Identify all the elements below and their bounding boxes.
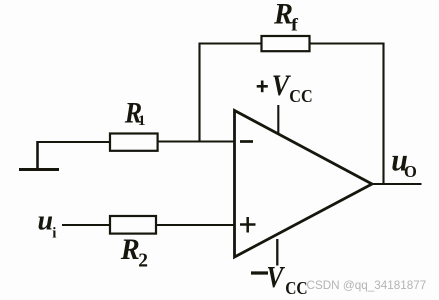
svg-text:O: O [404, 162, 417, 181]
label -Vcc [251, 261, 308, 299]
svg-text:R: R [273, 0, 293, 31]
wire +Vcc stub [277, 105, 279, 135]
wire -Vcc stub [276, 239, 278, 266]
label +Vcc [257, 69, 313, 106]
svg-text:2: 2 [138, 251, 148, 272]
svg-text:CSDN @qq_34181877: CSDN @qq_34181877 [307, 279, 427, 292]
svg-text:CC: CC [285, 278, 307, 298]
ground [19, 141, 59, 170]
wire non-inverting input right [156, 224, 235, 226]
svg-text:V: V [266, 261, 285, 295]
resistor R2 [110, 216, 156, 234]
wire feedback top-right segment [310, 44, 384, 185]
label Rf [273, 0, 298, 35]
resistor R1 [110, 134, 158, 151]
op-amp U1 triangle [235, 111, 373, 258]
wire feedback top-left segment [200, 44, 262, 142]
resistor Rf [262, 36, 310, 51]
svg-text:f: f [291, 16, 298, 35]
svg-text:R: R [120, 233, 140, 266]
op-amp plus input mark [240, 217, 256, 233]
wire output [372, 183, 422, 185]
svg-text:1: 1 [138, 113, 146, 129]
svg-text:u: u [38, 206, 54, 237]
wire non-inverting input left [62, 224, 110, 226]
svg-text:i: i [52, 225, 56, 241]
wire inverting input right [158, 140, 235, 142]
wire inverting input left [37, 141, 110, 143]
op-amp minus input mark [240, 140, 253, 143]
label uO [391, 143, 417, 181]
svg-text:CC: CC [289, 86, 312, 106]
label R1 [124, 97, 146, 130]
svg-text:V: V [272, 69, 291, 102]
label R2 [120, 233, 148, 271]
label ui [38, 206, 57, 242]
